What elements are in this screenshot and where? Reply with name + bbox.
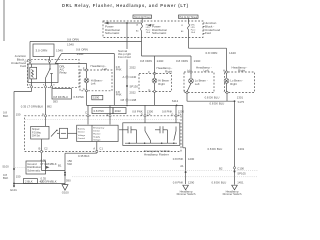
pin F bbox=[85, 69, 87, 71]
wire drop to left hi-beam F bbox=[56, 62, 87, 64]
fuse F2 bbox=[181, 18, 196, 43]
svg-text:0.8 ORN: 0.8 ORN bbox=[176, 59, 188, 63]
svg-text:C2: C2 bbox=[44, 147, 48, 151]
connector box 0.8 DK BLU 593 bbox=[52, 89, 71, 104]
wire label boxes bbox=[92, 108, 113, 114]
svg-text:Schematic: Schematic bbox=[152, 31, 167, 35]
svg-text:2022: 2022 bbox=[115, 109, 122, 113]
svg-text:G100: G100 bbox=[62, 190, 69, 194]
splice S112 bbox=[176, 105, 178, 107]
wire flasher pin A to ground (0.35 BLK) bbox=[96, 152, 98, 155]
relay coil bbox=[30, 67, 37, 79]
svg-text:0.8 PNK: 0.8 PNK bbox=[74, 95, 85, 99]
svg-text:DRL Relay, Flasher, Headlamps,: DRL Relay, Flasher, Headlamps, and Power… bbox=[62, 3, 189, 8]
svg-text:Right: Right bbox=[230, 82, 237, 86]
svg-text:0.8 DK BLU: 0.8 DK BLU bbox=[208, 147, 223, 151]
svg-text:A: A bbox=[123, 75, 125, 79]
svg-text:C: C bbox=[85, 110, 87, 114]
wire fuse1 to relay (0.8 ORN 1340) bbox=[141, 37, 143, 56]
svg-text:G101: G101 bbox=[10, 188, 17, 192]
svg-text:Right: Right bbox=[158, 82, 165, 86]
svg-text:1590: 1590 bbox=[93, 96, 100, 100]
fuse F1 bbox=[136, 23, 155, 37]
note text block bbox=[118, 49, 131, 59]
off page arrow left bbox=[183, 185, 189, 190]
svg-text:G: G bbox=[148, 88, 150, 92]
svg-text:0.8 PNK: 0.8 PNK bbox=[94, 109, 105, 113]
svg-text:C198: C198 bbox=[130, 98, 137, 102]
wire fuse2 to right lo-beam (0.8 ORN 1440) bbox=[188, 43, 190, 48]
svg-text:Supply: Supply bbox=[93, 137, 101, 139]
flasher internal switch bbox=[51, 130, 57, 137]
svg-text:G: G bbox=[83, 87, 85, 91]
svg-text:10 A: 10 A bbox=[146, 31, 151, 34]
svg-text:A1: A1 bbox=[180, 164, 184, 168]
svg-text:Left: Left bbox=[91, 82, 96, 86]
svg-text:1340: 1340 bbox=[56, 48, 63, 52]
svg-text:0.35 BLK: 0.35 BLK bbox=[78, 154, 90, 158]
svg-text:Voltage: Voltage bbox=[93, 139, 101, 142]
splice SP130 bbox=[126, 85, 128, 87]
svg-text:B2: B2 bbox=[219, 166, 223, 170]
emergency vehicle headlamp flasher dashed box bbox=[25, 116, 182, 152]
label DRL relay bbox=[60, 65, 68, 75]
svg-text:0.8 DK BLU: 0.8 DK BLU bbox=[53, 95, 68, 99]
svg-text:A: A bbox=[42, 112, 44, 116]
svg-text:Dimmer Switch: Dimmer Switch bbox=[223, 192, 242, 195]
svg-text:S175: S175 bbox=[238, 100, 245, 104]
svg-text:0.8 ORN: 0.8 ORN bbox=[76, 48, 88, 52]
label emergency vehicle headlamp flasher bbox=[144, 149, 170, 157]
label junction block underhood bbox=[11, 54, 26, 68]
svg-text:Battery: Battery bbox=[78, 127, 86, 130]
bulb hi beam left bbox=[86, 71, 88, 78]
label Junction Block - Underhood Fwd bbox=[203, 23, 205, 34]
wire bus from box1 bbox=[141, 18, 143, 23]
wire relay output (0.8 ORN 1340) to headlamps bbox=[55, 54, 62, 64]
svg-text:F: F bbox=[83, 66, 85, 70]
svg-text:F: F bbox=[148, 70, 150, 74]
svg-text:1451: 1451 bbox=[237, 181, 244, 185]
svg-text:304 Set: 304 Set bbox=[32, 135, 40, 138]
svg-text:1340: 1340 bbox=[77, 52, 84, 56]
svg-text:590: 590 bbox=[66, 178, 71, 182]
page edge line bbox=[3, 0, 5, 41]
svg-text:C1: C1 bbox=[99, 147, 103, 151]
svg-text:0.8 ORN: 0.8 ORN bbox=[140, 59, 152, 63]
svg-text:593: 593 bbox=[53, 99, 58, 103]
node splice on bus bbox=[126, 22, 128, 24]
svg-text:BLK: BLK bbox=[3, 176, 8, 180]
svg-text:0.35 LT GRN/BLK: 0.35 LT GRN/BLK bbox=[21, 105, 43, 109]
svg-text:PNK: PNK bbox=[116, 93, 122, 97]
flasher internal bottom bus bbox=[125, 142, 177, 144]
svg-text:Left: Left bbox=[102, 67, 107, 71]
svg-text:C240: C240 bbox=[130, 75, 137, 79]
headlamp left dashed box (hi beam) bbox=[80, 64, 112, 92]
svg-text:Dimmer Switch: Dimmer Switch bbox=[177, 192, 196, 195]
svg-text:150: 150 bbox=[16, 112, 21, 116]
headlamp right dashed box (hi beam) bbox=[139, 66, 172, 92]
arrow power distribution right bbox=[148, 24, 152, 27]
text power distribution schematic left bbox=[105, 25, 121, 36]
flasher bottom pins bbox=[40, 150, 42, 152]
svg-text:Relay: Relay bbox=[60, 70, 68, 74]
svg-text:1340: 1340 bbox=[194, 59, 201, 63]
svg-text:10 A: 10 A bbox=[191, 31, 196, 34]
svg-text:0.8 PNK: 0.8 PNK bbox=[173, 157, 184, 161]
flasher internal component bbox=[60, 128, 68, 138]
pin H bbox=[190, 71, 192, 73]
svg-text:1301: 1301 bbox=[238, 147, 245, 151]
relay bottom pins bbox=[30, 86, 32, 88]
wire lo-beam to dimmer switch lower labels bbox=[233, 167, 235, 169]
headlamp left dashed box (lo beam) bbox=[184, 65, 214, 93]
svg-text:Left: Left bbox=[195, 82, 200, 86]
pin H bbox=[225, 71, 227, 73]
svg-text:B1: B1 bbox=[58, 164, 62, 168]
flasher output contact box bbox=[123, 123, 180, 146]
text power distribution schematic right bbox=[152, 25, 168, 36]
wire drops to flasher pins bbox=[87, 105, 89, 114]
bulb lo beam left bbox=[190, 73, 192, 78]
flasher internal note box bbox=[31, 126, 49, 139]
svg-text:0.8 DK BLU: 0.8 DK BLU bbox=[205, 96, 220, 100]
svg-text:2 BLK: 2 BLK bbox=[25, 179, 33, 183]
off page arrow right bbox=[232, 185, 238, 190]
svg-text:502: 502 bbox=[67, 162, 72, 166]
pin J bbox=[186, 91, 188, 93]
svg-text:Voltage: Voltage bbox=[78, 134, 86, 137]
svg-text:2022: 2022 bbox=[130, 65, 137, 69]
arrow power distribution left bbox=[104, 22, 109, 25]
svg-text:From Fwd: From Fwd bbox=[118, 55, 131, 59]
pin F bbox=[153, 72, 155, 74]
svg-text:3.0 ORN: 3.0 ORN bbox=[36, 48, 48, 52]
wire lo-beam commons to dimmer switch (0.8 DK BLU 1301) bbox=[186, 94, 188, 102]
svg-text:Control: Control bbox=[78, 137, 86, 140]
svg-text:1440: 1440 bbox=[229, 51, 236, 55]
flasher top pins bbox=[44, 115, 46, 117]
svg-text:450: 450 bbox=[40, 179, 45, 183]
headlamp right dashed box (lo beam) bbox=[223, 65, 255, 93]
pin J bbox=[226, 91, 228, 93]
wire bus to dimmer switch (0.8 PNK) bbox=[182, 105, 184, 147]
svg-text:1301: 1301 bbox=[237, 96, 244, 100]
svg-text:S100: S100 bbox=[2, 164, 9, 168]
contact blade 1 bbox=[145, 127, 151, 144]
svg-text:SP105: SP105 bbox=[237, 172, 246, 176]
wire relay pin to S100 ground run bbox=[31, 88, 33, 92]
pin C8 C198 bbox=[126, 99, 128, 101]
dotted separation lines bbox=[100, 169, 258, 171]
wire flasher pin B down bbox=[41, 153, 43, 171]
svg-text:Hot At All Times: Hot At All Times bbox=[134, 16, 151, 19]
hot at all times box 1 bbox=[133, 15, 152, 19]
svg-text:Headlamp Flasher: Headlamp Flasher bbox=[144, 153, 169, 157]
pin G bbox=[153, 90, 155, 92]
pin C3 bbox=[29, 60, 31, 62]
pin C1 bbox=[48, 60, 50, 62]
pin G bbox=[85, 90, 87, 92]
splice S100 bbox=[13, 168, 15, 170]
svg-text:0.8 PNK: 0.8 PNK bbox=[173, 181, 184, 185]
svg-text:Schematic: Schematic bbox=[27, 168, 41, 172]
svg-text:Right: Right bbox=[238, 69, 245, 73]
svg-text:0.8 ORN: 0.8 ORN bbox=[206, 51, 218, 55]
contact blade 2 bbox=[174, 127, 176, 141]
svg-text:H: H bbox=[223, 68, 225, 72]
svg-text:Right: Right bbox=[165, 70, 172, 74]
contact K1 bbox=[119, 126, 137, 143]
bulb hi beam right bbox=[154, 75, 156, 79]
contact K2 bbox=[155, 126, 168, 143]
svg-text:C8: C8 bbox=[121, 98, 125, 102]
flasher module box bbox=[77, 125, 118, 141]
wire from fuse block PNK branch bbox=[126, 23, 128, 49]
thick wire box 3.0 ORN bbox=[33, 44, 63, 57]
svg-text:Interior: Interior bbox=[93, 130, 100, 133]
svg-text:1340: 1340 bbox=[67, 42, 74, 46]
svg-text:H: H bbox=[188, 68, 190, 72]
wires to bottom pins bbox=[41, 139, 43, 151]
svg-text:P.O.Way: P.O.Way bbox=[32, 132, 42, 134]
svg-text:150: 150 bbox=[16, 175, 21, 179]
svg-text:Schematic: Schematic bbox=[105, 31, 120, 35]
ground distribution schematic ref box bbox=[15, 166, 26, 168]
svg-text:Left: Left bbox=[204, 69, 209, 73]
svg-text:BLK: BLK bbox=[3, 114, 8, 118]
svg-text:PNK: PNK bbox=[116, 68, 122, 72]
svg-text:B: B bbox=[39, 147, 41, 151]
svg-text:1200: 1200 bbox=[188, 157, 195, 161]
wire 2 BLK 450 bbox=[14, 183, 65, 185]
svg-text:SP130: SP130 bbox=[130, 84, 139, 88]
svg-text:Fwd: Fwd bbox=[205, 31, 211, 35]
wire relay pin to flasher pin A (0.35 LT GRN/BLK) bbox=[45, 88, 47, 115]
fuse block (dashed box) bbox=[103, 21, 203, 38]
svg-text:Fwd: Fwd bbox=[20, 64, 26, 68]
wire hi-beam feed right headlamps bbox=[142, 55, 192, 57]
svg-text:2022: 2022 bbox=[130, 90, 137, 94]
relay K1 DRL relay bbox=[28, 64, 58, 87]
svg-text:0.8 ORN: 0.8 ORN bbox=[67, 37, 79, 41]
svg-text:1440: 1440 bbox=[157, 59, 164, 63]
bulb lo beam right bbox=[226, 73, 228, 78]
ground G100 bbox=[62, 185, 68, 191]
pin A C240 bbox=[126, 76, 128, 78]
hot at all times box 2 bbox=[179, 15, 199, 19]
wire hi-beam left ground run bbox=[86, 91, 88, 105]
junction block dashed box bbox=[28, 59, 80, 87]
svg-text:LT GRN/BLK: LT GRN/BLK bbox=[41, 162, 57, 166]
svg-text:0.8 DK BLU: 0.8 DK BLU bbox=[212, 181, 227, 185]
svg-text:0.8 DK BLU: 0.8 DK BLU bbox=[210, 101, 225, 105]
svg-text:Interior: Interior bbox=[78, 131, 85, 134]
svg-text:C100: C100 bbox=[237, 166, 244, 170]
svg-text:892: 892 bbox=[47, 105, 52, 109]
svg-text:1290: 1290 bbox=[188, 181, 195, 185]
svg-text:Flasher: Flasher bbox=[93, 133, 101, 136]
svg-text:Emergency: Emergency bbox=[93, 127, 105, 130]
svg-text:Striped: Striped bbox=[32, 128, 40, 131]
bus wire to flasher bbox=[87, 104, 183, 106]
relay switch bbox=[49, 64, 51, 69]
svg-text:A: A bbox=[93, 147, 95, 151]
svg-text:S112: S112 bbox=[172, 99, 179, 103]
